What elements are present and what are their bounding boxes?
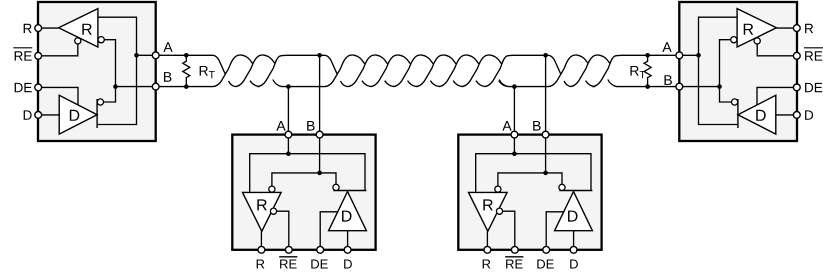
pin D of U3 (mid right) [570, 246, 577, 253]
label node A left [163, 42, 172, 52]
label DE pin of U1 (left end) [15, 83, 32, 92]
receiver inverting input bubble of U3 (mid right) [495, 186, 501, 192]
pin B of U4 (right end) [676, 83, 683, 90]
receiver label R of U2 (mid left) [257, 199, 267, 210]
junction B of U1 (left end) [113, 84, 118, 89]
junction A of U2 (mid left) [286, 151, 291, 156]
wire R output of U3 (mid right) [486, 231, 488, 250]
pin D of U2 (mid left) [344, 246, 351, 253]
junction B of U4 (right end) [717, 84, 722, 89]
receiver R of U4 (right end) [737, 9, 776, 47]
wire internal B net of U2 (mid left) [272, 173, 336, 186]
label D pin of U3 (mid right) [570, 260, 578, 269]
driver inverting output bubble of U4 (right end) [732, 99, 738, 105]
label A pin of U2 (mid left) [276, 121, 285, 131]
wire internal B net of U3 (mid right) [498, 173, 562, 186]
label DE pin of U2 (mid left) [311, 260, 327, 269]
wire R output of U1 (left end) [38, 27, 59, 29]
junction A of U3 (mid right) [512, 151, 517, 156]
pin B of U2 (mid left) [316, 131, 323, 138]
label R pin of U3 (mid right) [483, 260, 491, 269]
pin R of U4 (right end) [793, 25, 800, 32]
junction stub B on bus (U2) [317, 53, 322, 58]
label RE pin of U2 (mid left) [280, 260, 296, 269]
pin DE of U4 (right end) [793, 84, 800, 91]
junction B of U2 (mid left) [317, 171, 322, 176]
wire internal A net of U2 (mid left) [250, 154, 365, 193]
label D pin of U4 (right end) [805, 110, 813, 119]
transceiver box U1 (left end) [38, 2, 156, 141]
wire D input of U2 (mid left) [347, 231, 349, 250]
label RE pin of U3 (mid right) [506, 260, 522, 269]
wire B pin to junction of U1 (left end) [116, 86, 156, 88]
junction stub B on bus (U3) [543, 53, 548, 58]
driver output bar of U2 (mid left) [333, 190, 366, 192]
driver D of U3 (mid right) [555, 192, 593, 231]
wire internal B net of U1 (left end) [104, 40, 116, 102]
wire A stub pin to junction of U3 (mid right) [513, 135, 515, 154]
wire internal B net of U4 (right end) [720, 40, 732, 102]
wire B stub pin to junction of U3 (mid right) [545, 135, 547, 173]
wire stub B to U2 [319, 55, 321, 131]
pin R of U3 (mid right) [484, 246, 491, 253]
wire DE to driver enable of U2 (mid left) [320, 212, 338, 250]
pin R of U1 (left end) [35, 25, 42, 32]
wire DE to driver enable of U4 (right end) [757, 87, 797, 105]
label B pin of U2 (mid left) [307, 121, 314, 131]
driver label D of U1 (left end) [70, 110, 79, 121]
label D pin of U2 (mid left) [344, 260, 352, 269]
wire RE to receiver enable of U4 (right end) [757, 44, 797, 56]
transceiver box U2 (mid left) [232, 135, 375, 250]
label R pin of U1 (left end) [24, 24, 32, 33]
wire twisted pair bus (lines A and B) [156, 55, 680, 87]
wire stub B to U3 [545, 55, 547, 131]
pin A of U3 (mid right) [511, 131, 518, 138]
junction A of U1 (left end) [134, 53, 139, 58]
driver output bar of U1 (left end) [96, 99, 98, 128]
wire RE to receiver enable of U3 (mid right) [503, 211, 515, 250]
pin D of U1 (left end) [35, 112, 42, 119]
wire stub A to U3 [513, 87, 515, 132]
pin DE of U3 (mid right) [543, 246, 550, 253]
wire D input of U3 (mid right) [573, 231, 575, 250]
driver inverting output bubble of U3 (mid right) [559, 184, 565, 190]
pin A of U1 (left end) [152, 52, 159, 59]
pin B of U3 (mid right) [542, 131, 549, 138]
driver label D of U2 (mid left) [342, 211, 351, 222]
wire internal A net of U1 (left end) [97, 17, 136, 124]
receiver inverting input bubble of U2 (mid left) [269, 186, 275, 192]
pin RE of U2 (mid left) [285, 246, 292, 253]
transceiver box U3 (mid right) [458, 135, 601, 250]
wire RE to receiver enable of U1 (left end) [38, 44, 78, 56]
driver D of U1 (left end) [59, 95, 97, 134]
pin DE of U1 (left end) [35, 84, 42, 91]
label node B left [164, 72, 171, 82]
receiver enable bubble of U1 (left end) [75, 38, 81, 44]
receiver enable bubble of U3 (mid right) [496, 208, 502, 214]
transceiver box U4 (right end) [679, 2, 797, 141]
receiver enable bubble of U4 (right end) [754, 38, 760, 44]
receiver R of U1 (left end) [59, 9, 98, 47]
label B pin of U3 (mid right) [533, 121, 540, 131]
wire R output of U2 (mid left) [260, 231, 262, 250]
wire B pin to junction of U4 (right end) [679, 86, 719, 88]
wire DE to driver enable of U1 (left end) [38, 87, 78, 105]
receiver enable bubble of U2 (mid left) [270, 208, 276, 214]
label RT right [630, 66, 645, 78]
receiver label R of U1 (left end) [82, 24, 92, 35]
junction RT right top (node A) [645, 53, 650, 58]
pin DE of U2 (mid left) [317, 246, 324, 253]
driver output bar of U4 (right end) [737, 99, 739, 128]
receiver R of U2 (mid left) [243, 192, 282, 231]
wire D input of U4 (right end) [776, 114, 797, 116]
label R pin of U2 (mid left) [257, 260, 265, 269]
receiver inverting input bubble of U4 (right end) [731, 37, 737, 43]
wire internal A net of U3 (mid right) [476, 154, 591, 193]
junction stub A on bus (U2) [286, 84, 291, 89]
wire D input of U1 (left end) [38, 114, 59, 116]
resistor RT left [183, 55, 190, 86]
label DE pin of U3 (mid right) [537, 260, 553, 269]
junction stub A on bus (U3) [512, 84, 517, 89]
wire A stub pin to junction of U2 (mid left) [287, 135, 289, 154]
label RE overline of U1 (left end) [13, 47, 32, 49]
receiver R of U3 (mid right) [469, 192, 508, 231]
wire A pin to junction of U4 (right end) [679, 54, 698, 56]
wire stub A to U2 [287, 87, 289, 132]
wire internal A net of U4 (right end) [699, 17, 738, 124]
label RT left [200, 66, 215, 78]
pin RE of U4 (right end) [793, 52, 800, 59]
label node A right [662, 42, 671, 52]
wire A pin to junction of U1 (left end) [137, 54, 156, 56]
pin A of U4 (right end) [676, 52, 683, 59]
junction B of U3 (mid right) [543, 171, 548, 176]
label A pin of U3 (mid right) [502, 121, 511, 131]
junction RT right bottom (node B) [645, 84, 650, 89]
pin A of U2 (mid left) [285, 131, 292, 138]
wire DE to driver enable of U3 (mid right) [546, 212, 564, 250]
driver inverting output bubble of U1 (left end) [97, 99, 103, 105]
receiver label R of U3 (mid right) [483, 199, 493, 210]
driver D of U2 (mid left) [329, 192, 367, 231]
resistor RT right [644, 55, 651, 86]
pin R of U2 (mid left) [258, 246, 265, 253]
driver output bar of U3 (mid right) [559, 190, 592, 192]
label R pin of U4 (right end) [805, 24, 813, 33]
receiver label R of U4 (right end) [744, 24, 754, 35]
label RE pin of U4 (right end) [805, 51, 822, 60]
junction RT left top (node A) [184, 53, 189, 58]
label DE pin of U4 (right end) [805, 83, 822, 92]
label RE overline of U2 (mid left) [279, 256, 297, 258]
label RE overline of U4 (right end) [804, 47, 823, 49]
pin RE of U1 (left end) [35, 52, 42, 59]
pin D of U4 (right end) [793, 112, 800, 119]
junction A of U4 (right end) [696, 53, 701, 58]
wire RE to receiver enable of U2 (mid left) [277, 211, 289, 250]
label D pin of U1 (left end) [24, 110, 32, 119]
driver D of U4 (right end) [738, 95, 776, 134]
label node B right [664, 75, 671, 85]
driver label D of U3 (mid right) [568, 211, 577, 222]
pin RE of U3 (mid right) [511, 246, 518, 253]
junction RT left bottom (node B) [184, 84, 189, 89]
receiver inverting input bubble of U1 (left end) [98, 37, 104, 43]
pin B of U1 (left end) [152, 83, 159, 90]
driver inverting output bubble of U2 (mid left) [333, 184, 339, 190]
wire B stub pin to junction of U2 (mid left) [319, 135, 321, 173]
driver label D of U4 (right end) [756, 110, 765, 121]
label RE pin of U1 (left end) [15, 51, 32, 60]
label RE overline of U3 (mid right) [505, 256, 523, 258]
wire R output of U4 (right end) [776, 27, 797, 29]
